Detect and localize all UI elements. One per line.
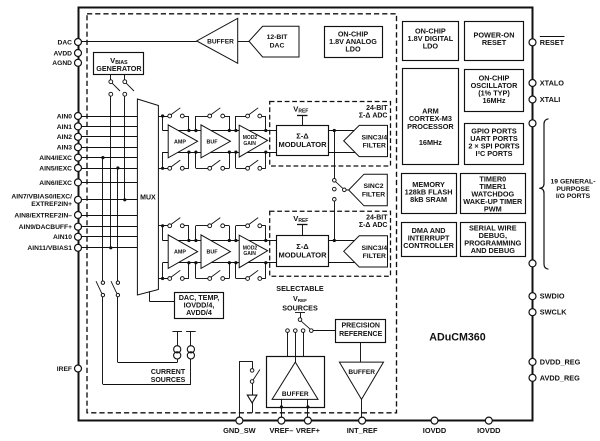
svg-text:MODULATOR: MODULATOR [278, 251, 327, 260]
pin XTALI [529, 95, 560, 104]
pin AIN0 [57, 113, 82, 121]
wire VREF select line 2 [295, 332, 297, 362]
svg-text:GND_SW: GND_SW [223, 426, 255, 435]
label SELECTABLE VREF SOURCES [276, 284, 324, 313]
wire AIN5/IEXC to MUX [81, 168, 137, 170]
dashed box 24-BIT sigma-delta ADC ch2 [270, 211, 391, 276]
junction VBIAS0 to AIN7 line [123, 198, 126, 201]
filter SINC2 [349, 174, 388, 206]
pin INT_REF [347, 417, 378, 435]
node VREF ch1 [293, 104, 308, 125]
wire ch1 output down [334, 131, 336, 179]
wire to precision reference [313, 330, 336, 332]
junction dots rails ch1 [187, 129, 267, 154]
svg-text:PRECISION: PRECISION [341, 323, 380, 330]
pin AIN4/IEXC [39, 154, 81, 162]
svg-text:CURRENT: CURRENT [151, 369, 186, 376]
svg-text:Σ-Δ ADC: Σ-Δ ADC [359, 112, 388, 119]
block ON-CHIP OSCILLATOR [465, 70, 524, 112]
block 12-BIT DAC [249, 26, 299, 57]
label ADuCM360 [429, 332, 485, 344]
svg-text:AIN11/VBIAS1: AIN11/VBIAS1 [27, 245, 72, 252]
amplifier BUF ch1 [201, 125, 230, 158]
wire reference to buffer [360, 342, 362, 362]
wire MUX out+ ch2 [158, 224, 168, 240]
wire/switch IEXC column B [111, 168, 178, 363]
junction IEXC column A on AIN4 [101, 156, 104, 159]
pin VREF+ [296, 417, 321, 435]
svg-text:Σ-Δ ADC: Σ-Δ ADC [359, 222, 388, 229]
block ARM CORTEX-M3 PROCESSOR [403, 69, 459, 165]
switch bypass top loop3 ch1 [236, 108, 266, 131]
svg-text:PURPOSE: PURPOSE [556, 186, 590, 193]
svg-text:GENERATOR: GENERATOR [96, 64, 142, 73]
junction VBIAS1 to AIN11 line [109, 246, 112, 249]
pin VREF– [269, 417, 293, 435]
wire + rail ch2 [163, 240, 355, 242]
svg-text:SWCLK: SWCLK [540, 308, 567, 317]
switch SINC2 selector [333, 179, 349, 202]
svg-text:GAIN: GAIN [243, 251, 256, 257]
filter SINC3/4 ch2 [344, 236, 388, 267]
junction dots rails ch2 [187, 239, 267, 264]
filter SINC3/4 ch1 [344, 125, 388, 156]
svg-text:AGND: AGND [52, 60, 72, 67]
junction ch2 modulator output [333, 239, 336, 242]
block PRECISION REFERENCE [336, 320, 386, 343]
pin SWCLK [529, 308, 567, 317]
node VREF ch2 [293, 214, 308, 236]
svg-text:MUX: MUX [140, 195, 156, 202]
switch bypass bottom loop2 ch1 [196, 152, 230, 170]
svg-text:FILTER: FILTER [363, 253, 386, 260]
pin DAC [58, 39, 82, 47]
switch bypass bottom loop1 ch2 [163, 263, 189, 281]
svg-text:IOVDD: IOVDD [477, 426, 501, 435]
amplifier AMP ch1 [168, 125, 197, 158]
wire MUX out+ ch1 [158, 114, 168, 130]
svg-text:SINC3/4: SINC3/4 [361, 134, 387, 141]
svg-text:AMP: AMP [174, 250, 186, 256]
pin GPIO-B (general-purpose I/O) [529, 260, 536, 267]
switch bypass top loop2 ch2 [196, 218, 230, 241]
svg-text:AIN8/EXTREF2IN–: AIN8/EXTREF2IN– [14, 212, 72, 219]
svg-text:PROCESSOR: PROCESSOR [407, 122, 454, 131]
svg-text:I²C PORTS: I²C PORTS [476, 149, 513, 158]
svg-text:XTALI: XTALI [540, 95, 561, 104]
svg-text:VREF–: VREF– [269, 426, 293, 435]
pin DVDD_REG [529, 357, 581, 366]
wire MUX to internal channels box [150, 291, 175, 301]
pin IOVDD [477, 417, 501, 435]
svg-text:EXTREF2IN+: EXTREF2IN+ [31, 201, 72, 208]
svg-text:8kB SRAM: 8kB SRAM [410, 195, 447, 204]
wire buffer to 12-bit DAC [238, 41, 249, 43]
box VREF buffer enclosure [267, 357, 325, 408]
analog section dashed boundary [87, 14, 397, 413]
wire MUX out- ch1 [158, 152, 168, 170]
svg-text:ADuCM360: ADuCM360 [429, 332, 485, 344]
pin AIN6/IEXC [39, 179, 81, 187]
svg-text:AND DEBUG: AND DEBUG [471, 246, 516, 255]
svg-text:19 GENERAL-: 19 GENERAL- [551, 179, 596, 186]
wire AIN6/IEXC to MUX [81, 182, 137, 184]
switch VBIAS0 select [109, 74, 120, 248]
switch bypass top loop3 ch2 [236, 218, 266, 241]
svg-text:SWDIO: SWDIO [540, 292, 565, 301]
svg-text:AVDD/4: AVDD/4 [186, 308, 212, 317]
wire/switch IEXC column A [96, 158, 191, 385]
svg-text:BUF: BUF [206, 250, 218, 256]
wire - rail ch1 [163, 152, 355, 154]
switch VREF source select [295, 313, 310, 329]
pin SWDIO [529, 292, 565, 301]
wire AIN4/IEXC to MUX [81, 157, 137, 159]
pin AGND [52, 59, 81, 67]
svg-text:SOURCES: SOURCES [282, 304, 318, 313]
svg-text:BUFFER: BUFFER [282, 391, 309, 398]
pin AIN7/VBIAS0/IEXC/EXTREF2IN+ [11, 194, 81, 208]
wire AIN0 to MUX [81, 116, 137, 118]
block POWER-ON RESET [465, 22, 524, 61]
wire AIN10 to MUX [81, 236, 137, 238]
brace 19 general-purpose I/O ports [539, 119, 595, 269]
block MEMORY 128kB FLASH 8kB SRAM [402, 174, 457, 214]
block ON-CHIP 1.8V ANALOG LDO [325, 27, 383, 58]
junction ch1 modulator output [333, 129, 336, 132]
svg-text:INT_REF: INT_REF [347, 426, 378, 435]
wire to ch2 output [334, 201, 336, 240]
pin AIN8/EXTREF2IN– [14, 212, 81, 220]
block sigma-delta modulator ch1 [277, 126, 329, 156]
svg-text:24-BIT: 24-BIT [366, 215, 388, 222]
switch bypass top loop1 ch1 [163, 108, 189, 131]
wire GND_SW riser [239, 361, 252, 417]
wire AIN7 to MUX [81, 199, 137, 201]
switch bypass top loop1 ch2 [163, 218, 189, 241]
svg-text:LDO: LDO [423, 41, 439, 50]
amplifier AMP ch2 [168, 235, 197, 269]
svg-text:DVDD_REG: DVDD_REG [540, 357, 581, 366]
pin AIN2 [57, 133, 82, 141]
svg-text:AMP: AMP [174, 139, 186, 145]
svg-text:AVDD_REG: AVDD_REG [540, 373, 580, 382]
svg-text:BUFFER: BUFFER [207, 38, 234, 45]
svg-text:BUFFER: BUFFER [348, 369, 375, 376]
svg-text:AIN5/IEXC: AIN5/IEXC [39, 165, 72, 172]
pin AIN1 [57, 123, 82, 131]
svg-text:SOURCES: SOURCES [151, 377, 186, 384]
block DAC, TEMP, IOVDD/4, AVDD/4 [175, 293, 224, 319]
switch bypass top loop2 ch1 [196, 108, 230, 131]
wire to VREF+ pin [306, 399, 309, 417]
pin AIN10 [53, 233, 81, 241]
svg-text:DAC: DAC [270, 42, 285, 49]
wire AIN9/DACBUFF+ to MUX [81, 226, 137, 228]
pin XTALO [529, 79, 564, 88]
svg-text:IOVDD: IOVDD [423, 426, 447, 435]
svg-text:AIN10: AIN10 [53, 234, 72, 241]
svg-text:AIN4/IEXC: AIN4/IEXC [39, 155, 72, 162]
wire + rail ch1 [163, 130, 355, 132]
svg-text:AIN9/DACBUFF+: AIN9/DACBUFF+ [19, 224, 72, 231]
svg-text:RESET: RESET [482, 38, 507, 47]
svg-text:AIN0: AIN0 [57, 113, 73, 120]
wire VREF select line 3 [303, 332, 305, 356]
svg-text:24-BIT: 24-BIT [366, 105, 388, 112]
svg-text:16MHz: 16MHz [482, 96, 505, 105]
wire AIN8/EXTREF2IN– to MUX [81, 215, 137, 217]
pin AIN3 [57, 144, 82, 152]
pin AIN9/DACBUFF+ [19, 223, 82, 231]
amplifier BUF ch2 [201, 235, 230, 269]
junction IEXC column B on AIN5 [116, 166, 119, 169]
svg-text:LDO: LDO [345, 44, 361, 53]
amplifier MOD2 GAIN ch2 [239, 235, 267, 268]
svg-text:BUF: BUF [206, 139, 218, 145]
block ON-CHIP 1.8V DIGITAL LDO [403, 22, 459, 61]
wire MUX out- ch2 [158, 263, 168, 281]
wire DAC pin to buffer [81, 41, 196, 43]
svg-text:SINC3/4: SINC3/4 [361, 245, 387, 252]
svg-text:AVDD: AVDD [54, 50, 73, 57]
block DMA AND INTERRUPT CONTROLLER [402, 223, 457, 257]
wire AIN1 to MUX [81, 126, 137, 128]
svg-text:MODULATOR: MODULATOR [278, 140, 327, 149]
op-amp VREF buffer [272, 362, 318, 399]
wire VREF select line 1 [287, 332, 289, 356]
pin AVDD_REG [529, 373, 580, 382]
svg-text:CONTROLLER: CONTROLLER [403, 241, 454, 250]
wire to VREF- pin [280, 399, 283, 417]
label CURRENT SOURCES [151, 369, 186, 384]
svg-text:PWM: PWM [484, 205, 502, 214]
svg-text:AIN3: AIN3 [57, 145, 73, 152]
svg-text:AIN7/VBIAS0/IEXC/: AIN7/VBIAS0/IEXC/ [11, 194, 72, 201]
svg-text:XTALO: XTALO [540, 79, 565, 88]
switch GND_SW [250, 361, 260, 395]
current source IEXC2 [186, 332, 196, 360]
svg-text:12-BIT: 12-BIT [267, 34, 289, 41]
wire - rail ch2 [163, 262, 355, 264]
switch VBIAS1 select [123, 74, 134, 200]
chip boundary ADuCM360 [79, 8, 533, 421]
svg-text:GAIN: GAIN [243, 141, 256, 147]
pin AIN5/IEXC [39, 165, 81, 173]
dashed box 24-BIT sigma-delta ADC ch1 [270, 102, 391, 167]
svg-text:FILTER: FILTER [363, 143, 386, 150]
pin RESET (active low) [529, 37, 565, 47]
pin IOVDD [423, 417, 447, 435]
pin IREF [57, 365, 82, 373]
analog mux MUX [137, 99, 158, 295]
svg-text:I/O PORTS: I/O PORTS [556, 193, 591, 200]
svg-text:RESET: RESET [540, 38, 565, 47]
svg-text:SELECTABLE: SELECTABLE [276, 284, 324, 293]
svg-text:AIN2: AIN2 [57, 134, 73, 141]
svg-text:16MHz: 16MHz [419, 138, 442, 147]
pin GPIO-A (general-purpose I/O) [529, 120, 536, 127]
pin GND_SW [223, 417, 255, 435]
pin AIN11/VBIAS1 [27, 244, 81, 252]
switch bypass bottom loop2 ch2 [196, 263, 230, 281]
svg-text:REFERENCE: REFERENCE [339, 331, 383, 338]
block TIMER0/TIMER1/WATCHDOG/WAKE-UP TIMER/PWM [461, 174, 526, 214]
current source IEXC1 [172, 332, 182, 360]
node VREF select inputs [286, 329, 313, 333]
svg-text:IREF: IREF [57, 366, 72, 373]
switch bypass bottom loop3 ch1 [236, 152, 266, 170]
svg-text:AIN6/IEXC: AIN6/IEXC [39, 180, 72, 187]
block SERIAL WIRE DEBUG, PROGRAMMING AND DEBUG [461, 223, 526, 257]
svg-text:FILTER: FILTER [362, 192, 385, 199]
block GPIO/UART/SPI/I2C PORTS [465, 124, 524, 165]
wire AIN3 to MUX [81, 147, 137, 149]
wire AIN11/VBIAS1 to MUX [81, 247, 137, 249]
ground symbol (switched analog ground) [247, 395, 257, 413]
switch bypass bottom loop3 ch2 [236, 263, 266, 281]
svg-text:SINC2: SINC2 [363, 183, 383, 190]
wire AIN2 to MUX [81, 136, 137, 138]
op-amp reference buffer [339, 362, 383, 399]
switch bypass bottom loop1 ch1 [163, 152, 189, 170]
svg-text:AIN1: AIN1 [57, 124, 73, 131]
wire buffer to INT_REF pin [361, 399, 363, 417]
block sigma-delta modulator ch2 [277, 236, 329, 267]
block VBIAS GENERATOR [94, 53, 144, 75]
svg-text:DAC: DAC [58, 39, 73, 46]
svg-text:VREF+: VREF+ [296, 426, 321, 435]
op-amp DAC output buffer [197, 18, 238, 63]
pin AVDD [54, 50, 82, 58]
amplifier MOD2 GAIN ch1 [239, 125, 267, 157]
